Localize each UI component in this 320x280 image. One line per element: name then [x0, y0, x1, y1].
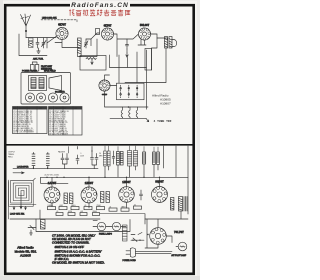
svg-text:PANEL LAMPS: PANEL LAMPS	[99, 232, 113, 235]
svg-text:3MEG: 3MEG	[71, 205, 76, 207]
AC plug	[126, 248, 172, 257]
rectifier tube V4	[99, 80, 110, 91]
svg-text:1MEG: 1MEG	[121, 206, 126, 208]
bottom bus of rf section	[79, 39, 97, 57]
right verticals	[164, 146, 189, 214]
svg-text:.02: .02	[134, 204, 136, 206]
loop antenna lead + arrow	[13, 178, 35, 209]
svg-text:10MEG: 10MEG	[48, 205, 54, 207]
single winding	[143, 152, 146, 164]
svg-text:A10807: A10807	[160, 102, 171, 106]
ground	[37, 48, 40, 53]
wire right drop	[152, 38, 158, 70]
svg-text:LIST: LIST	[39, 108, 42, 110]
line cord plug above chassis	[31, 62, 39, 71]
top bus wires	[13, 164, 158, 177]
coil 2	[70, 193, 73, 204]
models text block	[15, 246, 37, 258]
switch S2 contacts	[131, 233, 149, 242]
volume control striped column 1	[32, 153, 35, 169]
svg-text:35Z5: 35Z5	[102, 93, 108, 96]
ground under switch	[30, 230, 33, 235]
vertical feed wires center	[110, 50, 147, 109]
padder capacitor cluster	[61, 154, 69, 169]
ground arrow mid	[126, 53, 128, 57]
svg-text:.002: .002	[80, 211, 83, 213]
loop antenna spiral	[9, 180, 34, 206]
svg-text:2MEG: 2MEG	[93, 211, 98, 213]
mid bus wires bottom panel	[10, 202, 127, 219]
pilot light note	[41, 66, 53, 71]
tuning capacitor C1	[36, 38, 39, 48]
B+ resistor box	[80, 56, 106, 71]
output transformer T1	[165, 37, 177, 49]
svg-text:A10805: A10805	[20, 254, 31, 258]
svg-text:50L6GT: 50L6GT	[140, 24, 150, 27]
wires V2 to V3	[114, 34, 127, 57]
coupling cap between V7/V8	[140, 190, 143, 200]
small part value labels row 2	[56, 211, 98, 213]
svg-text:1A7GT: 1A7GT	[48, 182, 57, 185]
winding pair right	[153, 152, 160, 165]
svg-text:REF: REF	[13, 108, 16, 110]
parts list table left	[13, 107, 48, 134]
wire to V3 grid	[127, 34, 139, 39]
svg-text:470M: 470M	[68, 211, 73, 213]
svg-text:RadioFans.CN: RadioFans.CN	[71, 2, 129, 9]
svg-text:FIELD: FIELD	[8, 157, 14, 159]
parts list table right	[49, 107, 83, 136]
svg-text:70L7GT: 70L7GT	[174, 231, 184, 234]
wire from rect area down-left	[105, 75, 117, 86]
switch S1 box	[117, 83, 145, 100]
svg-text:CONNECTED TO CHASSIS.: CONNECTED TO CHASSIS.	[52, 240, 90, 244]
pilot lamp	[176, 242, 187, 251]
table header text right	[49, 108, 77, 110]
if transformer T3	[117, 152, 124, 166]
svg-text:SP 4 IN. PM SPEAKER: SP 4 IN. PM SPEAKER	[49, 133, 69, 136]
if transformer between V6/V7	[101, 192, 110, 203]
oscillator coil between V5/V6	[64, 193, 67, 204]
svg-text:1H5GT: 1H5GT	[122, 181, 131, 184]
speaker in chassis	[49, 76, 62, 91]
svg-text:L2 RF COIL W/TRIMMER: L2 RF COIL W/TRIMMER	[13, 132, 34, 134]
trimmer capacitor C3	[84, 39, 88, 48]
svg-text:LINE CORD ANT.: LINE CORD ANT.	[42, 17, 57, 20]
coupling capacitor C4	[126, 45, 129, 50]
lower bus wires	[36, 214, 145, 232]
antenna	[21, 14, 31, 38]
text Allied Radio A10805 A10807	[152, 94, 171, 106]
watermark backing band	[70, 2, 130, 9]
interstage coil L2	[78, 38, 82, 57]
wire under switch	[105, 91, 122, 107]
tube V1 6K7GT	[56, 27, 68, 39]
svg-text:DESCRIPTION: DESCRIPTION	[19, 108, 31, 110]
svg-text:.05: .05	[56, 211, 58, 213]
svg-text:REF: REF	[49, 108, 52, 110]
left coil lower	[41, 220, 46, 230]
tube socket circles in chassis	[25, 93, 69, 102]
left margin small labels	[8, 152, 15, 159]
if transformer T4 (dark pair)	[128, 151, 138, 167]
tube V7 1H5GT	[119, 187, 135, 203]
svg-text:6K7GT: 6K7GT	[104, 24, 112, 27]
wires around V9	[145, 211, 188, 248]
filter choke winding	[123, 225, 128, 241]
if transformer T2 primary	[104, 151, 111, 166]
resistor R2 under V3	[138, 39, 146, 46]
svg-text:.05: .05	[84, 205, 86, 207]
wires between ballast circles	[93, 226, 126, 228]
junction dot	[128, 106, 130, 108]
svg-text:6K7GT: 6K7GT	[58, 24, 66, 27]
volume control striped column 2	[46, 153, 49, 169]
svg-text:LOUDSPKR: LOUDSPKR	[17, 167, 29, 169]
svg-text:#47 PILOT LAMP: #47 PILOT LAMP	[172, 254, 188, 257]
svg-text:4 TUBE TRF: 4 TUBE TRF	[154, 120, 172, 123]
loudspeaker label arrow	[13, 172, 24, 174]
svg-text:3Q5GT: 3Q5GT	[155, 181, 164, 184]
wire grid cap V2	[91, 33, 100, 39]
svg-text:LOOP ANT. 5B1: LOOP ANT. 5B1	[10, 213, 25, 216]
bus junction dots	[46, 177, 160, 178]
border frame	[5, 5, 194, 274]
svg-text:SPKR FIELD: SPKR FIELD	[44, 71, 56, 73]
tube V5 1A7GT	[44, 187, 60, 203]
watermark chinese line (vector pseudo-glyphs)	[69, 9, 130, 15]
second row small parts labels area	[56, 213, 100, 216]
tiny value labels above bus	[44, 175, 60, 177]
electrolytic cluster	[91, 147, 99, 169]
svg-text:DESCRIPTION: DESCRIPTION	[55, 108, 67, 110]
b+ bus above tubes	[41, 177, 189, 187]
grid box V2	[96, 29, 100, 35]
ballast filament circle B2	[112, 222, 120, 230]
power transformer in chassis	[29, 76, 47, 91]
svg-text:SOCKETS: SOCKETS	[55, 92, 65, 94]
svg-text:LIST: LIST	[74, 108, 77, 110]
filter can box	[145, 49, 152, 71]
vertical line mid	[68, 147, 70, 154]
small part value labels row 1	[48, 204, 136, 208]
svg-text:ON MODEL 5B SWITCH 2A NOT USED: ON MODEL 5B SWITCH 2A NOT USED.	[52, 261, 105, 265]
wire to grid cap of V1	[47, 37, 56, 49]
top row part labels	[58, 151, 103, 158]
svg-text:ANT. TUN.: ANT. TUN.	[33, 58, 44, 61]
heater string filaments	[110, 107, 149, 122]
wires V1 to interstage	[55, 40, 79, 48]
table row text left	[13, 111, 34, 134]
tube V6 1N5GT	[81, 187, 97, 203]
svg-text:PADDER: PADDER	[58, 151, 66, 154]
table header text left	[13, 108, 42, 110]
panel divider line	[7, 144, 194, 146]
svg-text:250M: 250M	[97, 205, 102, 207]
tube V9 70L7GT	[150, 228, 167, 245]
mid bus 2	[9, 180, 145, 220]
bypass capacitor cluster	[76, 147, 79, 165]
switch under left	[28, 226, 36, 230]
svg-text:.01: .01	[109, 206, 111, 208]
paper background	[0, 0, 200, 280]
tube V3 50L6GT	[138, 28, 150, 40]
variable capacitor C2 with arrow	[42, 38, 47, 48]
tube V2 6K7GT	[101, 28, 113, 40]
wire: antenna bus	[26, 37, 56, 39]
svg-text:POWER CORD: POWER CORD	[123, 260, 137, 262]
line cord antenna (dashed)	[41, 20, 77, 23]
svg-text:.05 25V OSC. 456KC: .05 25V OSC. 456KC	[44, 175, 60, 177]
tube V8 3Q5GT	[152, 187, 168, 203]
wire V3 plate to output transformer	[151, 34, 168, 40]
top row stubs to divider	[105, 146, 158, 152]
coupling cap row	[112, 151, 115, 164]
tuner enclosure box	[19, 34, 47, 56]
notes text block (italic)	[52, 233, 105, 264]
svg-text:.0001: .0001	[59, 205, 63, 207]
resistor R1 drop	[86, 39, 91, 46]
table row text right	[49, 110, 69, 136]
svg-text:BEHIND DIAL: BEHIND DIAL	[41, 67, 52, 70]
chassis layout box	[21, 73, 71, 105]
row of small resistors under tubes	[48, 206, 142, 211]
wire T1 down	[125, 48, 166, 83]
svg-text:1N5GT: 1N5GT	[85, 182, 94, 185]
output transformer T6 right	[171, 197, 188, 212]
ballast filament circle B1	[97, 222, 105, 230]
antenna coil L1	[29, 38, 34, 48]
